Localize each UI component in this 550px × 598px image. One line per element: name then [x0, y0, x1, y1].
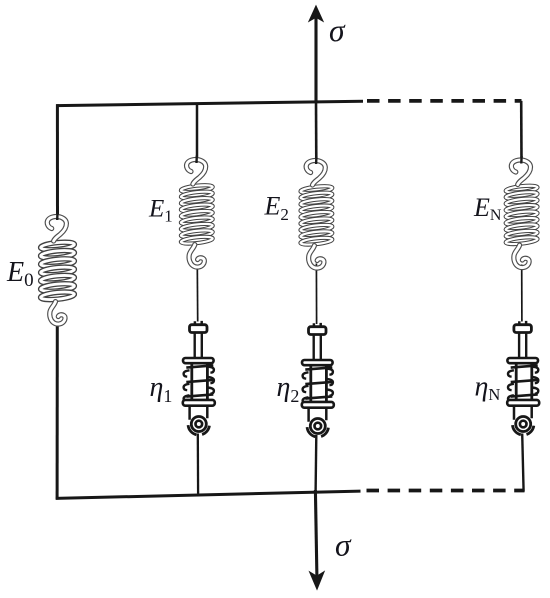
wire: branchN bottom — [522, 434, 523, 492]
wire: branch2 bottom — [314, 435, 317, 492]
wire: branch1 middle — [196, 266, 198, 322]
svg-text:η2: η2 — [277, 372, 300, 406]
svg-text:E2: E2 — [264, 192, 289, 225]
arrowhead top — [310, 7, 323, 21]
svg-text:E0: E0 — [6, 257, 34, 291]
dashpot eta1 — [183, 321, 215, 435]
wire: left vertical — [56, 104, 59, 219]
wire: top bar solid segment — [56, 101, 363, 105]
wire: branchN middle — [521, 265, 523, 322]
wire: branch2 middle — [315, 264, 317, 325]
svg-text:E1: E1 — [148, 196, 173, 226]
wire: branch1 bottom — [197, 434, 200, 494]
wire: bottom bar dashed segment — [367, 489, 525, 493]
spring E0 — [40, 213, 75, 325]
svg-text:EN: EN — [473, 193, 502, 224]
wire: bottom sigma arrow shaft — [315, 490, 317, 576]
wire: top sigma arrow shaft — [314, 12, 317, 103]
svg-text:σ: σ — [335, 528, 352, 563]
arrowhead bottom — [310, 572, 323, 588]
wire: branch1 top — [196, 103, 199, 162]
svg-text:η1: η1 — [150, 372, 173, 406]
svg-text:ηN: ηN — [475, 372, 501, 405]
spring E1 — [181, 156, 213, 268]
wire: left vertical lower — [56, 323, 59, 500]
wire: branchN top — [520, 101, 523, 160]
wire: branch2 top — [315, 101, 318, 163]
svg-text:σ: σ — [329, 13, 346, 48]
spring EN — [505, 156, 537, 268]
wire: bottom bar solid segment — [56, 491, 361, 498]
dashpot etaN — [507, 321, 539, 435]
dashpot eta2 — [302, 323, 334, 437]
wire: top bar dashed segment — [367, 99, 522, 103]
spring E2 — [300, 157, 332, 269]
